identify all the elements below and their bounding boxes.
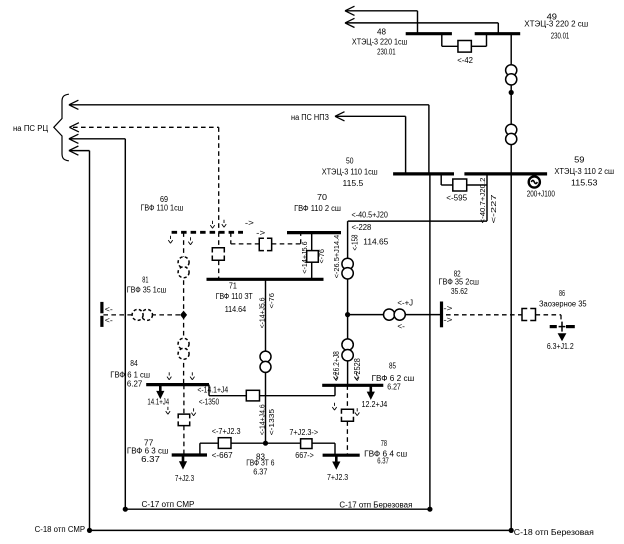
label bus 49 bbox=[524, 13, 588, 41]
direction marks at bus 82 bbox=[443, 304, 452, 324]
svg-text:ХТЭЦ-3 220 2 сш: ХТЭЦ-3 220 2 сш bbox=[524, 19, 588, 28]
wire feeder from bus 59 down at x487 bbox=[486, 174, 488, 221]
svg-text:->: -> bbox=[443, 304, 452, 313]
bus 70 GVF 110 2s bbox=[287, 231, 341, 234]
node S-17 left corner bbox=[123, 507, 128, 512]
breaker dashed bus85-bus78 bbox=[341, 409, 353, 421]
value label -667 bbox=[212, 451, 233, 460]
label bus 78 bbox=[364, 439, 407, 466]
value label -7+J2.3 bbox=[212, 427, 241, 436]
wire S-17 right vertical to bus 50 bbox=[429, 174, 431, 509]
svg-text:<-228: <-228 bbox=[352, 223, 372, 232]
wire line2 dashed: to PS RTs from bus 69 bbox=[73, 127, 219, 232]
breaker V-667 bbox=[218, 438, 231, 449]
svg-text:<-: <- bbox=[397, 322, 405, 331]
label S-17 otp Berezovaya bbox=[339, 501, 412, 510]
bus 78 GVF 6 4s bbox=[323, 454, 360, 457]
wire from node to bus 82 bbox=[348, 314, 441, 316]
svg-text:6.37: 6.37 bbox=[377, 457, 389, 466]
svg-text:<-76: <-76 bbox=[267, 293, 276, 309]
direction arrows above bus 85 bbox=[334, 372, 359, 379]
load value 14.1+J4 bbox=[147, 397, 169, 406]
bus 49 KhTETs-3 220 2s bbox=[475, 32, 521, 35]
wire tie bus77 to breaker 667 bbox=[200, 443, 218, 455]
wire arrow line top1 to bus 48 bbox=[345, 6, 418, 34]
bus 59 KhTETs-3 110 2s bbox=[464, 172, 547, 175]
svg-text:на ПС НПЗ: на ПС НПЗ bbox=[291, 113, 329, 122]
wire transformer branch x347.6 down to bus 85 bbox=[347, 221, 349, 385]
svg-text:С-17 отп Березовая: С-17 отп Березовая bbox=[339, 501, 412, 510]
bus 50 KhTETs-3 110 1s bbox=[393, 172, 454, 175]
transformer T3 35kV winding bbox=[384, 309, 406, 320]
svg-text:<-227: <-227 bbox=[489, 194, 498, 223]
wire dashed diamond to bus 81 bbox=[103, 314, 181, 316]
label bus 50 bbox=[322, 157, 378, 189]
svg-text:<-26.5+J14.4: <-26.5+J14.4 bbox=[332, 235, 341, 279]
svg-text:<-40.7+J20.2: <-40.7+J20.2 bbox=[478, 178, 487, 224]
svg-text:35.62: 35.62 bbox=[451, 287, 468, 296]
label S-17 otp SMR bbox=[142, 500, 195, 509]
value label -2528 rotated bbox=[353, 358, 362, 381]
value label -40.5+J20 bbox=[352, 211, 389, 220]
svg-text:Заозерное 35: Заозерное 35 bbox=[539, 299, 587, 308]
wire line3: to PS RTs from S-17 tap bbox=[70, 139, 126, 509]
label bus 85 bbox=[372, 361, 415, 391]
arrowhead line2 dashed to PS RTs bbox=[69, 123, 79, 132]
svg-text:<-595: <-595 bbox=[446, 193, 467, 202]
transformer T5 winding bbox=[260, 351, 271, 372]
wire arrow line top2 to bus 49 bbox=[345, 18, 498, 33]
direction arrows below bus 69 bbox=[168, 236, 192, 245]
direction arrows above bus 69 bbox=[210, 220, 226, 228]
svg-text:С-18 отп СМР: С-18 отп СМР bbox=[35, 525, 86, 534]
wire tie to bus78 bbox=[312, 443, 335, 455]
wire breaker 595 right stub bbox=[467, 184, 487, 186]
svg-text:71: 71 bbox=[229, 281, 237, 290]
wire dashed diamond down to bus 84 bbox=[183, 315, 185, 385]
svg-text:48: 48 bbox=[377, 27, 387, 36]
node S-18 left corner bbox=[87, 528, 92, 533]
load arrow bus 77 bbox=[179, 455, 187, 470]
label na PS RTs bbox=[13, 124, 48, 133]
direction arrows at breaker 84-77 bbox=[166, 407, 196, 416]
svg-text:<-14+J5.6: <-14+J5.6 bbox=[300, 241, 309, 273]
svg-text:ХТЭЦ-3 110 1сш: ХТЭЦ-3 110 1сш bbox=[322, 168, 378, 177]
svg-text:ГВФ 110 2 сш: ГВФ 110 2 сш bbox=[294, 204, 341, 213]
value label -595 bbox=[446, 193, 467, 202]
curly brace for lines to PS RTs bbox=[54, 94, 69, 161]
svg-text:ХТЭЦ-3 110 2 сш: ХТЭЦ-3 110 2 сш bbox=[554, 167, 614, 176]
node between transformer windings bbox=[509, 90, 514, 95]
wire line4: to PS RTs from S-18 tap bbox=[70, 151, 90, 531]
label bus 69 bbox=[141, 195, 184, 212]
breaker V-595 between buses 50 59 bbox=[453, 179, 467, 191]
svg-text:14.1+J4: 14.1+J4 bbox=[147, 397, 169, 406]
label na PS NPZ bbox=[291, 113, 329, 122]
label generator 200+J100 bbox=[527, 189, 556, 198]
value label <- bbox=[397, 322, 405, 331]
transformer T4 35kV winding dashed bbox=[132, 309, 152, 320]
bus 48 KhTETs-3 220 1s bbox=[406, 32, 452, 35]
wire tie bus84 to bus85 bbox=[209, 385, 246, 396]
svg-text:6.37: 6.37 bbox=[141, 455, 160, 464]
wire line1: to PS RTs from bus 50 bbox=[70, 105, 429, 174]
value label -14+J5.6 rotated at x312 bbox=[300, 241, 309, 273]
wire dashed from breaker to load bbox=[536, 315, 562, 321]
svg-text:С-17 отп СМР: С-17 отп СМР bbox=[142, 500, 195, 509]
wire breaker 42 left stub bbox=[442, 34, 458, 47]
value label -14+J4.6 rotated bbox=[257, 404, 266, 435]
svg-text:<-14+J4.6: <-14+J4.6 bbox=[257, 404, 266, 435]
wire breaker bay bus70 to bus71 bbox=[311, 233, 313, 280]
transformer T4 6kV winding dashed bbox=[178, 338, 189, 359]
svg-text:<-158: <-158 bbox=[350, 234, 359, 250]
node junction on tie 77-78 bbox=[263, 441, 268, 446]
svg-text:<-: <- bbox=[105, 305, 113, 314]
load arrow bus 78 bbox=[332, 455, 340, 470]
label bus 48 bbox=[352, 27, 408, 56]
label bus 84 bbox=[110, 359, 150, 389]
direction arrows above bus 84 bbox=[167, 372, 195, 379]
node junction to bus 82 branch bbox=[345, 312, 350, 317]
wire breaker 42 right stub bbox=[471, 34, 486, 47]
wire dashed from bus 82 to Zaozernoe bbox=[446, 314, 522, 316]
svg-text:ХТЭЦ-3 220 1сш: ХТЭЦ-3 220 1сш bbox=[352, 37, 408, 46]
value label 667-out bbox=[295, 451, 314, 460]
wire dashed bay bus69 to bus71 bbox=[218, 232, 220, 279]
svg-text:70: 70 bbox=[317, 193, 328, 202]
label bus 86 Zaozernoe 35 bbox=[539, 289, 587, 308]
label bus 70 bbox=[294, 193, 341, 213]
svg-text:114.64: 114.64 bbox=[225, 305, 247, 314]
value label -158 rotated bbox=[350, 234, 359, 250]
label bus 83 GVF 3T 6 bbox=[246, 453, 275, 477]
svg-text:ГВФ 110 1сш: ГВФ 110 1сш bbox=[141, 203, 184, 212]
wire S-18 bottom line bbox=[90, 529, 512, 531]
value label -1335 rotated bbox=[267, 409, 276, 435]
load value 7+J2.3 bus77 bbox=[175, 474, 195, 483]
svg-text:<-42: <-42 bbox=[457, 56, 473, 65]
wire S-17 line left vertical already drawn; bottom segment bbox=[125, 508, 430, 510]
svg-text:230.01: 230.01 bbox=[551, 31, 570, 40]
svg-text:86: 86 bbox=[559, 289, 565, 298]
svg-text:115.53: 115.53 bbox=[571, 179, 598, 188]
transformer T4 high winding dashed bbox=[178, 257, 189, 278]
svg-text:200+J100: 200+J100 bbox=[527, 189, 556, 198]
svg-text:ГВФ 110 ЗТ: ГВФ 110 ЗТ bbox=[216, 292, 253, 301]
svg-text:7+J2.3: 7+J2.3 bbox=[175, 474, 195, 483]
load value 7+J2.3 bus78 bbox=[327, 473, 349, 482]
breaker V-42 between buses 48 49 bbox=[458, 41, 471, 53]
svg-text:<-: <- bbox=[105, 316, 113, 325]
svg-text:->: -> bbox=[256, 228, 265, 237]
value label -14.1+J4 bbox=[197, 386, 228, 395]
svg-text:85: 85 bbox=[389, 361, 396, 370]
svg-text:12.2+J4: 12.2+J4 bbox=[362, 400, 388, 409]
wire dashed tie bus69 to bus70 bbox=[231, 232, 259, 244]
svg-text:114.65: 114.65 bbox=[363, 238, 389, 247]
breaker dashed bus84-bus77 bbox=[178, 414, 190, 426]
svg-text:на ПС РЦ: на ПС РЦ bbox=[13, 124, 48, 133]
svg-text:<-1335: <-1335 bbox=[267, 409, 276, 435]
value label -40.7+J20.2 rotated bbox=[478, 178, 487, 224]
bus 85 GVF 6 2s bbox=[322, 384, 383, 387]
svg-text:ГВФ 6 2 сш: ГВФ 6 2 сш bbox=[372, 374, 415, 383]
svg-text:->: -> bbox=[443, 316, 452, 325]
value label 114.65 bbox=[363, 238, 389, 247]
svg-text:->: -> bbox=[245, 218, 254, 227]
value label -1350 bbox=[199, 397, 220, 406]
generator G1 at bus 59 bbox=[529, 176, 540, 187]
svg-text:<-1350: <-1350 bbox=[199, 397, 220, 406]
wire dashed tie to bus 70 bbox=[272, 233, 301, 244]
value label <-+J bbox=[397, 298, 413, 307]
svg-text:<-76: <-76 bbox=[317, 249, 326, 263]
arrowhead line4 to PS RTs bbox=[69, 146, 79, 155]
svg-text:6.3+J1.2: 6.3+J1.2 bbox=[547, 342, 574, 351]
svg-text:ГВФ ЗТ 6: ГВФ ЗТ 6 bbox=[246, 459, 275, 468]
wire line to PS NPZ from bus 50 bbox=[336, 116, 406, 174]
breaker V-1350 bbox=[246, 390, 259, 401]
bus 77 GVF 6 3s bbox=[172, 453, 207, 456]
wire tie to bus85 bbox=[260, 385, 336, 395]
bus 71 GVF 110 3T bbox=[207, 278, 324, 281]
bus 82 GVF 35 2s vertical bar bbox=[440, 302, 443, 328]
svg-text:<-14+J5.6: <-14+J5.6 bbox=[257, 297, 266, 328]
transformer T2 mid winding bbox=[342, 339, 353, 361]
label S-18 otp Berezovaya bbox=[514, 528, 594, 537]
load arrow bus 84 bbox=[156, 385, 164, 400]
svg-text:<-26.2+J8: <-26.2+J8 bbox=[332, 351, 341, 381]
svg-text:6.37: 6.37 bbox=[253, 468, 268, 477]
label bus 71 bbox=[216, 281, 253, 314]
svg-text:ГВФ 6 1 сш: ГВФ 6 1 сш bbox=[110, 370, 150, 379]
arrowhead line to PS NPZ bbox=[335, 112, 345, 121]
transformer T1 high winding bbox=[506, 65, 517, 85]
label S-18 otp SMR bbox=[35, 525, 86, 534]
node S-17 right corner bbox=[427, 507, 432, 512]
wire dashed bus69 down to diamond node bbox=[183, 232, 185, 315]
value label -228 bbox=[352, 223, 372, 232]
breaker V-76 bus70-bus71 bbox=[307, 251, 319, 263]
value label -26.5+J14.4 rotated bbox=[332, 235, 341, 279]
breaker 667-out bbox=[301, 439, 312, 449]
svg-text:50: 50 bbox=[346, 157, 354, 166]
transformer T1 low winding bbox=[506, 124, 517, 144]
wire tie y221 from x487 to x347.8 bbox=[348, 220, 487, 222]
svg-text:7+J2.3->: 7+J2.3-> bbox=[289, 428, 318, 437]
node S-18 right corner bbox=[509, 528, 514, 533]
svg-text:7+J2.3: 7+J2.3 bbox=[327, 473, 349, 482]
svg-text:ГВФ 35 2сш: ГВФ 35 2сш bbox=[439, 278, 480, 287]
svg-text:78: 78 bbox=[381, 439, 388, 448]
direction marks on tie 69-70 bbox=[245, 218, 266, 237]
svg-text:ГВФ 35 1сш: ГВФ 35 1сш bbox=[127, 285, 167, 294]
svg-text:С-18 отп Березовая: С-18 отп Березовая bbox=[514, 528, 594, 537]
load arrow Zaozernoe bbox=[558, 333, 567, 341]
svg-text:667->: 667-> bbox=[295, 451, 314, 460]
arrowhead line1 to PS RTs bbox=[69, 100, 79, 109]
svg-text:59: 59 bbox=[574, 156, 585, 165]
svg-text:<-667: <-667 bbox=[212, 451, 233, 460]
wire breaker 595 left stub bbox=[441, 174, 453, 185]
value label -14+J5.6 rotated x265 bbox=[257, 297, 266, 328]
svg-text:<-14.1+J4: <-14.1+J4 bbox=[197, 386, 228, 395]
node diamond junction x183 bbox=[180, 311, 187, 320]
value label -227 rotated bbox=[489, 194, 498, 223]
svg-text:230.01: 230.01 bbox=[377, 47, 396, 56]
transformer T2 high winding bbox=[342, 258, 353, 279]
svg-text:<-7+J2.3: <-7+J2.3 bbox=[212, 427, 241, 436]
wire dashed bus84 down to bus 77 bbox=[183, 385, 185, 455]
svg-text:<-2528: <-2528 bbox=[353, 358, 362, 381]
value label -42 bbox=[457, 56, 473, 65]
value label -76 rotated x265 bbox=[267, 293, 276, 309]
value label 7+J2.3-out bbox=[289, 428, 318, 437]
wire transformer feeder from bus 49 down to S-18 line bbox=[510, 34, 512, 531]
load value 12.2+J4 bbox=[362, 400, 388, 409]
breaker dashed Zaozernoe bbox=[522, 309, 536, 321]
bus 84 GVF 6 1s bbox=[146, 383, 209, 386]
load arrow bus 85 bbox=[367, 385, 375, 400]
direction arrows at breaker 85-78 bbox=[332, 403, 359, 416]
wire tie to node bbox=[231, 442, 301, 444]
label bus 81 bbox=[127, 276, 167, 295]
breaker dashed bus69-bus71 bbox=[212, 248, 224, 261]
label bus 77 bbox=[127, 439, 168, 464]
load bus bar Zaozernoe bbox=[550, 322, 575, 332]
label bus 82 bbox=[439, 270, 480, 296]
direction marks at bus 81 bbox=[105, 305, 113, 325]
value label -26.2+J8 rotated bbox=[332, 351, 341, 381]
wire dashed bus85 down to bus78 bbox=[346, 385, 348, 455]
svg-text:6.27: 6.27 bbox=[387, 383, 401, 392]
wire feeder bus71 down to tie 77-78 bbox=[265, 279, 267, 443]
svg-text:84: 84 bbox=[130, 359, 138, 368]
breaker dashed on tie 69-70 bbox=[259, 238, 271, 250]
svg-text:115.5: 115.5 bbox=[343, 179, 364, 188]
svg-text:<-40.5+J20: <-40.5+J20 bbox=[352, 211, 389, 220]
bus 69 GVF 110 1s dashed bbox=[172, 231, 243, 234]
svg-text:81: 81 bbox=[142, 276, 149, 285]
svg-text:<-+J: <-+J bbox=[397, 298, 413, 307]
label bus 59 bbox=[554, 156, 614, 188]
value label -76 rotated at x312 bbox=[317, 249, 326, 263]
svg-text:6.27: 6.27 bbox=[127, 379, 143, 388]
bus 81 GVF 35 1s dashed bar bbox=[100, 302, 103, 327]
load value 6.3+J1.2 bbox=[547, 342, 574, 351]
arrowhead line3 to PS RTs bbox=[69, 134, 79, 143]
